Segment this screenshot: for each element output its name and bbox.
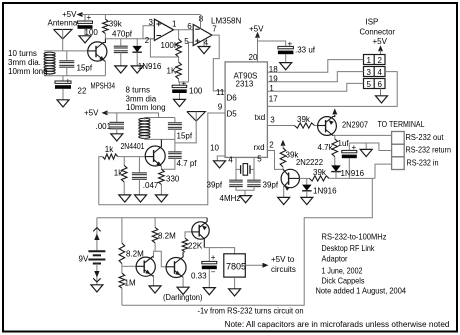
svg-text:-1v from RS-232 turns circuit: -1v from RS-232 turns circuit on xyxy=(198,307,304,316)
wire Q4 emitter to ground xyxy=(283,187,285,198)
ground below ISP xyxy=(376,96,388,103)
connector J1 row 5-6 xyxy=(364,79,386,89)
capacitor C12 39pf xyxy=(247,180,261,188)
wire Q2 emitter down xyxy=(160,166,162,170)
svg-text:15pf: 15pf xyxy=(177,132,193,141)
label pin 7 xyxy=(212,25,217,34)
wire R5 stub xyxy=(123,157,125,166)
ground pin 10 xyxy=(214,161,226,168)
svg-text:1N916: 1N916 xyxy=(138,62,162,71)
svg-text:LM358N: LM358N xyxy=(211,17,241,26)
svg-text:22K: 22K xyxy=(188,242,203,251)
wire L2 bottom tap xyxy=(143,138,145,139)
label 8.2M of R13 xyxy=(158,232,176,241)
op-amp U1A minus xyxy=(157,35,162,37)
wire C1 to ground xyxy=(84,29,86,36)
note -1v xyxy=(198,307,304,316)
svg-text:RS-232 in: RS-232 in xyxy=(407,159,439,168)
op-amp U1B plus xyxy=(195,39,199,43)
capacitor C7 15pf xyxy=(168,122,182,130)
label D6 xyxy=(227,94,238,103)
svg-text:6: 6 xyxy=(187,22,192,31)
svg-text:.33 uf: .33 uf xyxy=(295,46,316,55)
svg-text:7805: 7805 xyxy=(226,262,246,272)
label 7805 xyxy=(226,262,246,272)
wire R13 to Q5 collector node xyxy=(154,243,156,251)
wire tank bottom xyxy=(144,138,175,140)
label 10mm long xyxy=(8,67,48,76)
svg-text:RS-232-to-100MHz: RS-232-to-100MHz xyxy=(322,232,387,242)
label pin 9 xyxy=(218,103,223,112)
wire feedback loop xyxy=(150,39,178,57)
transistor Q2 base wire xyxy=(145,156,154,158)
ground below R6 xyxy=(155,195,167,202)
label 22 of C4 xyxy=(78,87,87,96)
wire R1 to node xyxy=(104,34,106,39)
capacitor C3 15pf xyxy=(59,60,74,68)
arrow battery bottom xyxy=(94,271,99,278)
label +5V (ISP) xyxy=(373,37,388,46)
wire divider node to Q5 base xyxy=(122,265,136,267)
svg-text:+: + xyxy=(66,77,71,86)
svg-text:Dick Cappels: Dick Cappels xyxy=(322,276,365,286)
label 39k (R7) xyxy=(297,115,311,124)
svg-text:39pf: 39pf xyxy=(207,181,223,190)
wire U1A output xyxy=(174,29,193,31)
label LM358N xyxy=(211,17,241,26)
coil L1 10 turns xyxy=(44,52,55,74)
arrow battery top xyxy=(94,234,99,241)
ground below crystal xyxy=(240,196,252,203)
svg-text:2: 2 xyxy=(378,56,383,65)
svg-text:1N916: 1N916 xyxy=(341,169,365,178)
resistor R13 8.2M stub xyxy=(154,218,156,228)
diode D2 1N916 xyxy=(302,185,312,191)
ground below C5 xyxy=(174,99,186,106)
title line 2 xyxy=(322,243,376,253)
wire C9 to ground xyxy=(138,179,140,195)
svg-text:TO TERMINAL: TO TERMINAL xyxy=(378,120,425,129)
wire R11 to node xyxy=(121,264,123,267)
resistor R1 39k xyxy=(103,19,109,33)
wire Q1 emitter to rail xyxy=(104,61,106,76)
resistor R11 8.2M xyxy=(119,243,125,264)
label 4MHz xyxy=(220,194,241,203)
ground below battery xyxy=(91,285,103,292)
label +5V (chip) xyxy=(249,25,264,34)
label + of C13 xyxy=(352,143,357,152)
wire R6 to ground xyxy=(160,185,162,195)
svg-text:2313: 2313 xyxy=(236,80,254,89)
label 10 turns xyxy=(8,49,37,58)
title note xyxy=(316,286,407,296)
wire C10 to ground xyxy=(285,54,287,62)
svg-text:txd: txd xyxy=(255,113,266,122)
connector J2 RS-232 out box xyxy=(392,132,405,145)
svg-text:3: 3 xyxy=(149,18,154,27)
svg-text:9V: 9V xyxy=(79,255,89,264)
wire R14 bottom to Q6 collector xyxy=(183,251,185,253)
wire collector node xyxy=(299,177,309,179)
wire RS-232 in to power switch xyxy=(122,178,372,305)
svg-text:100K: 100K xyxy=(161,41,180,50)
label pin 18 xyxy=(269,65,278,74)
transistor Q4 base wire xyxy=(283,169,289,175)
label MPSH34 xyxy=(91,82,116,91)
label AT90S xyxy=(234,72,258,81)
crystal X1 plates xyxy=(241,165,250,174)
transistor Q6 emitter xyxy=(175,271,184,278)
label 15pf of C7 xyxy=(177,132,193,141)
resistor R2 100K xyxy=(176,39,182,57)
label pin 17 xyxy=(269,95,278,104)
resistor R12 1M xyxy=(119,273,125,288)
resistor R3 1K xyxy=(176,62,182,79)
capacitor C4 22uF stub xyxy=(62,76,64,81)
label 22K xyxy=(188,242,203,251)
transistor Q7 collector xyxy=(199,234,204,248)
wire R8 to D3 xyxy=(335,157,336,166)
svg-text:+: + xyxy=(87,13,92,22)
svg-text:9: 9 xyxy=(218,103,223,112)
svg-text:circuits: circuits xyxy=(271,265,296,274)
ground below D1 xyxy=(131,66,143,73)
svg-text:1: 1 xyxy=(367,56,372,65)
diode D3 1N916 xyxy=(331,165,341,171)
svg-text:2: 2 xyxy=(145,36,150,45)
ground below C1 xyxy=(79,36,91,43)
capacitor C2 470pf stub xyxy=(120,39,122,46)
label pin 20 xyxy=(249,53,258,62)
label + of C4 xyxy=(66,77,71,86)
connector J1 row 3-4 xyxy=(364,67,386,77)
capacitor C6 .001 stub xyxy=(116,113,118,122)
resistor R9 39k xyxy=(280,148,286,167)
label +5V (receiver rail) xyxy=(62,10,77,19)
arrow +5V ISP pointing up xyxy=(378,45,383,51)
svg-text:4.7 pf: 4.7 pf xyxy=(177,159,198,168)
label pin 3 (txd) xyxy=(270,116,275,125)
wire L1 bottom tap xyxy=(49,74,51,76)
capacitor C2 470pf xyxy=(114,46,128,54)
wire D5 keying run xyxy=(99,113,225,205)
ground below 7805 xyxy=(229,289,241,296)
svg-text:1uf: 1uf xyxy=(338,139,350,148)
arrow 7805 output xyxy=(263,263,269,268)
svg-text:+5V: +5V xyxy=(249,25,264,34)
title line 1 xyxy=(322,232,387,242)
wire C7 bottom stub xyxy=(174,129,176,140)
antenna A2 xyxy=(187,112,206,134)
svg-text:20: 20 xyxy=(249,53,258,62)
op-amp U1B minus xyxy=(195,28,199,30)
wire R7 to Q3 base xyxy=(315,125,318,127)
label + of C1 xyxy=(87,13,92,22)
transistor Q4 2N2222 body xyxy=(281,169,299,187)
resistor R6 330 xyxy=(159,169,165,184)
connector J1 row 1-2 xyxy=(364,55,386,65)
wire C3 bottom stub xyxy=(66,67,68,76)
label 39k of R9 xyxy=(286,151,300,160)
resistor R5 1k xyxy=(121,166,127,183)
transistor Q6 base wire xyxy=(166,266,174,268)
label + of C5 xyxy=(182,79,187,88)
diode D2 1N916 stub xyxy=(306,178,308,184)
wire U1B pin5 riser xyxy=(189,42,194,82)
svg-text:8.2M: 8.2M xyxy=(126,250,144,259)
op-amp U1A triangle xyxy=(154,19,173,40)
resistor R4 1k xyxy=(103,154,118,159)
label 2N2907 xyxy=(342,121,369,130)
label +5V (oscillator rail) xyxy=(84,109,99,118)
transistor Q7 emitter xyxy=(199,218,207,230)
ground below Q6 xyxy=(177,287,189,294)
ground below D2 xyxy=(301,197,313,204)
label pin 5 xyxy=(184,37,189,46)
wire pullup stem xyxy=(282,145,284,148)
wire ISP +5V stem xyxy=(380,50,382,55)
IC U2 AT90S2313 body xyxy=(225,62,267,157)
label 4.7 pf xyxy=(177,159,198,168)
wire Q5 collector riser xyxy=(153,251,155,258)
arrow +5V oscillator pointing left xyxy=(102,110,108,115)
label 1N916 of D3 xyxy=(341,169,365,178)
svg-text:1: 1 xyxy=(172,20,177,29)
wire L1 top node xyxy=(44,50,88,52)
wire ISP ground stem xyxy=(380,89,382,96)
capacitor C4 22uF xyxy=(55,81,71,89)
label 10mm long (L2) xyxy=(126,103,166,112)
ground below C14 xyxy=(203,288,215,295)
svg-text:0.33: 0.33 xyxy=(191,272,207,281)
svg-text:330: 330 xyxy=(166,175,180,184)
wire battery rail xyxy=(97,217,207,219)
wire collector to RS-232 out xyxy=(333,134,392,136)
op-amp U1B triangle xyxy=(193,24,212,45)
wire C6 to ground xyxy=(116,129,118,134)
svg-text:Desktop RF Link: Desktop RF Link xyxy=(322,243,376,253)
wire R4 left riser xyxy=(99,157,103,205)
svg-text:10 turns: 10 turns xyxy=(8,49,37,58)
title author xyxy=(322,276,365,286)
capacitor C8 4.7pf xyxy=(168,151,182,159)
label pin 10 xyxy=(210,144,219,153)
resistor R7 39k xyxy=(295,123,315,128)
label TO TERMINAL xyxy=(378,120,425,129)
label pin 1 xyxy=(172,20,177,29)
label 2N4401 xyxy=(121,142,145,151)
wire C14 to ground xyxy=(208,269,210,287)
svg-text:5: 5 xyxy=(257,155,262,164)
wire pin4 down xyxy=(235,157,237,179)
wire feedback down xyxy=(178,30,180,39)
label pin 5 (xtal) xyxy=(257,155,262,164)
wire xtal caps to ground xyxy=(236,186,254,195)
label ISP pin 6 xyxy=(378,80,383,89)
label - of C14 xyxy=(211,268,216,277)
battery connector chevron bottom xyxy=(93,278,100,282)
connector J2 RS-232 in box xyxy=(392,157,405,170)
svg-text:5: 5 xyxy=(367,80,372,89)
label Antenna xyxy=(48,19,80,28)
connector J2 RS-232 return box xyxy=(392,144,405,157)
label (Darlington) xyxy=(163,293,203,302)
crystal X1 leads xyxy=(236,168,254,170)
transistor Q4 emitter xyxy=(284,182,290,191)
svg-text:10mm long: 10mm long xyxy=(126,103,166,112)
label 1M xyxy=(125,279,136,288)
label 1k (R4) xyxy=(105,145,114,154)
wire +5V top rail xyxy=(81,14,201,16)
svg-text:470pf: 470pf xyxy=(112,30,133,39)
wire C13 bottom stub xyxy=(348,158,350,178)
resistor R8 4.7k stub xyxy=(334,135,336,139)
transistor Q6 body xyxy=(166,258,186,278)
label 39pf right xyxy=(263,181,279,190)
svg-text:10mm long: 10mm long xyxy=(8,67,48,76)
label 39k (R10) xyxy=(313,168,327,177)
label 8.2M of R11 xyxy=(126,250,144,259)
svg-text:+5V: +5V xyxy=(84,109,99,118)
label 100 of C1 xyxy=(85,28,99,37)
wire branch to C10 xyxy=(258,41,286,46)
ground below C10 xyxy=(280,63,292,70)
capacitor C14 0.33 xyxy=(202,261,217,269)
transistor Q2 collector xyxy=(154,139,162,153)
svg-text:2N2222: 2N2222 xyxy=(296,158,324,167)
label ISP pin 4 xyxy=(378,68,383,77)
wire 7805 to ground xyxy=(234,277,236,289)
wire ISP pin4 to chip pin17 xyxy=(267,72,397,107)
note capacitors xyxy=(225,320,450,329)
capacitor C5 100uF xyxy=(172,85,187,93)
wire +5V to pin 20 xyxy=(257,37,259,62)
label ISP xyxy=(366,18,379,27)
transistor Q6 collector xyxy=(175,252,184,264)
label pin 4 xyxy=(204,39,209,48)
svg-text:10: 10 xyxy=(210,144,219,153)
wire C4 to ground xyxy=(62,89,64,100)
ground below U1B xyxy=(198,47,210,54)
label .047 xyxy=(143,181,159,190)
svg-text:.001: .001 xyxy=(96,122,112,131)
transistor Q1 base wire xyxy=(88,50,96,52)
wire txd out xyxy=(267,125,294,127)
label RS-232 return xyxy=(406,146,452,155)
svg-text:100: 100 xyxy=(189,87,203,96)
wire U1A pin2 input xyxy=(150,38,154,40)
label RS-232 out xyxy=(406,133,445,142)
label + of C14 xyxy=(211,253,216,262)
svg-text:Note: All capacitors are in mi: Note: All capacitors are in microfarads … xyxy=(225,320,450,329)
resistor R3 1K stub xyxy=(178,57,180,62)
label 3mm dia. xyxy=(8,58,41,67)
wire R12 to -1v rail xyxy=(121,288,123,305)
svg-text:8.2M: 8.2M xyxy=(158,232,176,241)
svg-text:+: + xyxy=(182,79,187,88)
svg-text:4: 4 xyxy=(228,156,233,165)
label 100K of R2 xyxy=(161,41,180,50)
resistor R1 39k stub xyxy=(104,15,106,20)
wire node A to pin3 riser xyxy=(105,26,154,39)
label 1N916 of D2 xyxy=(313,187,337,196)
label D5 xyxy=(227,110,238,119)
svg-text:3: 3 xyxy=(270,116,275,125)
svg-text:11: 11 xyxy=(216,88,225,97)
label 1N916 of D1 xyxy=(138,62,162,71)
svg-text:4.7k: 4.7k xyxy=(318,143,334,152)
transistor Q5 body xyxy=(136,257,155,276)
wire pin10 to ground xyxy=(217,156,225,161)
capacitor C7 15pf top stub xyxy=(174,118,176,123)
svg-text:(Darlington): (Darlington) xyxy=(163,293,203,302)
op-amp U1A plus xyxy=(157,22,162,26)
wire C8 bottom to emitter node xyxy=(161,158,175,169)
svg-text:39k: 39k xyxy=(297,115,311,124)
label RS-232 in xyxy=(407,159,439,168)
capacitor C6 .001 xyxy=(110,122,125,130)
wire tank to C8 xyxy=(174,139,176,151)
wire chip pin18 to ISP pin1 xyxy=(267,60,363,73)
svg-text:MPSH34: MPSH34 xyxy=(91,82,116,91)
battery connector chevron top xyxy=(93,228,100,232)
label ISP pin 2 xyxy=(378,56,383,65)
label 3mm dia xyxy=(126,95,157,104)
label 4.7k xyxy=(318,143,334,152)
wire rxd out xyxy=(267,151,284,170)
diode D1 1N916 stub xyxy=(136,39,138,46)
svg-text:+: + xyxy=(211,253,216,262)
transistor Q1 emitter xyxy=(96,54,105,62)
ground below Q5 xyxy=(149,286,161,293)
label pin 1 (chip) xyxy=(269,84,274,93)
label pin 6 xyxy=(187,22,192,31)
wire L2 top tap xyxy=(143,118,145,120)
wire chip pin19 to ISP pin3 xyxy=(267,72,363,82)
label pin 4 (xtal) xyxy=(228,156,233,165)
label 9V xyxy=(79,255,89,264)
label 1k (R5) xyxy=(114,169,123,178)
label pin 11 xyxy=(216,88,225,97)
svg-text:2N4401: 2N4401 xyxy=(121,142,145,151)
label 330 xyxy=(166,175,180,184)
wire battery stem bottom xyxy=(96,264,98,285)
label 100 of C5 xyxy=(189,87,203,96)
svg-text:1k: 1k xyxy=(105,145,114,154)
capacitor C14 0.33 stub xyxy=(208,248,210,262)
wire node to pin2 xyxy=(143,38,154,40)
label 470pf xyxy=(112,30,133,39)
ground below R5 xyxy=(119,195,131,202)
svg-text:4: 4 xyxy=(378,68,383,77)
svg-text:Connector: Connector xyxy=(360,28,396,37)
wire R10 to RS-in node xyxy=(329,177,375,179)
transistor Q4 collector xyxy=(289,177,300,179)
svg-text:4MHz: 4MHz xyxy=(220,194,241,203)
wire U1B pin8 power xyxy=(200,15,202,29)
resistor R8 4.7k xyxy=(332,139,338,157)
svg-text:1M: 1M xyxy=(125,279,136,288)
wire R14 top to Q7 base xyxy=(185,232,192,238)
svg-text:3: 3 xyxy=(367,68,372,77)
label pin 19 xyxy=(269,75,278,84)
label +5V to xyxy=(271,255,295,264)
label ISP pin 3 xyxy=(367,68,372,77)
resistor R10 39k xyxy=(309,176,329,181)
wire Q6 emitter to ground xyxy=(182,277,184,288)
svg-text:+: + xyxy=(288,40,293,49)
svg-text:5: 5 xyxy=(184,37,189,46)
